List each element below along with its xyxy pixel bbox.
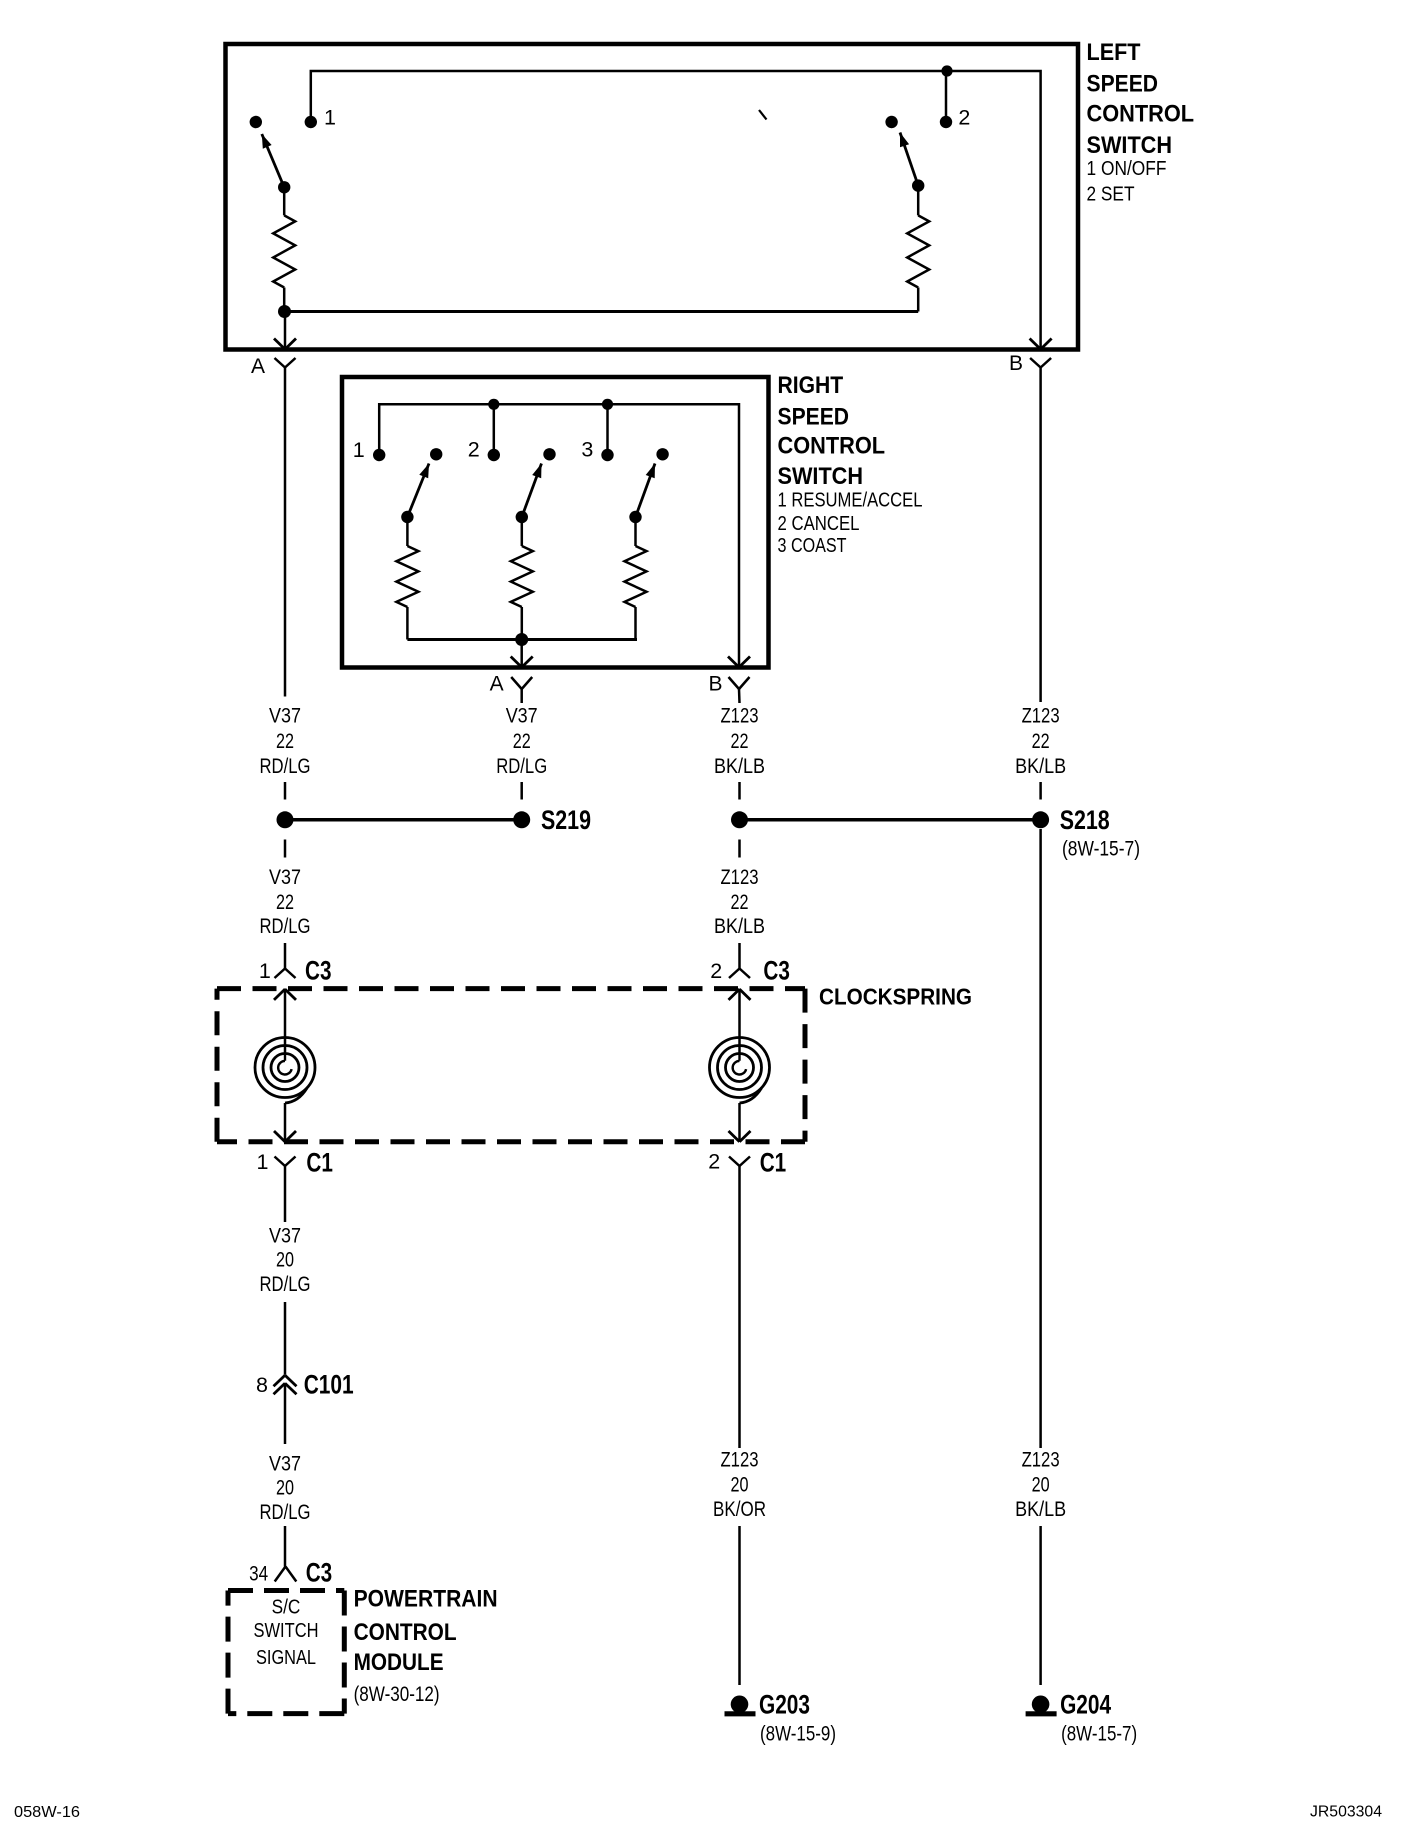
svg-text:C3: C3 (305, 956, 332, 986)
svg-text:(8W-15-7): (8W-15-7) (1062, 838, 1140, 861)
svg-text:20: 20 (731, 1474, 749, 1497)
svg-text:2: 2 (708, 1150, 720, 1174)
svg-text:20: 20 (276, 1249, 294, 1272)
svg-text:Z123: Z123 (721, 1449, 759, 1472)
svg-text:BK/LB: BK/LB (1015, 1498, 1066, 1521)
svg-text:22: 22 (731, 730, 749, 753)
svg-text:SWITCH: SWITCH (778, 463, 864, 490)
svg-text:22: 22 (276, 891, 294, 914)
svg-text:Z123: Z123 (1022, 705, 1060, 728)
svg-text:20: 20 (276, 1477, 294, 1500)
svg-text:C3: C3 (306, 1557, 333, 1587)
svg-text:CONTROL: CONTROL (354, 1619, 457, 1646)
svg-text:22: 22 (276, 730, 294, 753)
svg-text:RD/LG: RD/LG (260, 1501, 311, 1524)
svg-text:S219: S219 (541, 805, 591, 835)
svg-text:(8W-15-9): (8W-15-9) (760, 1723, 836, 1746)
svg-text:B: B (708, 673, 722, 696)
svg-text:V37: V37 (269, 866, 301, 889)
svg-text:(8W-30-12): (8W-30-12) (354, 1683, 440, 1706)
svg-text:C101: C101 (304, 1370, 354, 1400)
svg-text:22: 22 (731, 891, 749, 914)
svg-text:Z123: Z123 (721, 866, 759, 889)
svg-text:RD/LG: RD/LG (260, 1273, 311, 1296)
svg-text:3: 3 (581, 438, 593, 462)
svg-text:A: A (490, 673, 504, 696)
svg-text:BK/LB: BK/LB (1015, 755, 1066, 778)
svg-text:1: 1 (257, 1150, 269, 1174)
svg-text:2: 2 (468, 438, 480, 462)
svg-text:C1: C1 (760, 1148, 787, 1178)
svg-text:BK/LB: BK/LB (714, 755, 765, 778)
svg-text:S218: S218 (1060, 805, 1110, 835)
svg-text:BK/OR: BK/OR (713, 1498, 766, 1521)
svg-text:20: 20 (1032, 1474, 1050, 1497)
svg-text:1: 1 (259, 959, 271, 983)
svg-text:V37: V37 (269, 705, 301, 728)
svg-text:POWERTRAIN: POWERTRAIN (354, 1586, 498, 1613)
svg-text:1 ON/OFF: 1 ON/OFF (1087, 158, 1167, 180)
svg-text:SPEED: SPEED (778, 403, 850, 430)
svg-text:G204: G204 (1060, 1690, 1111, 1720)
svg-text:34: 34 (249, 1562, 268, 1586)
svg-text:MODULE: MODULE (354, 1649, 444, 1676)
svg-text:SPEED: SPEED (1087, 70, 1159, 97)
svg-text:2 CANCEL: 2 CANCEL (778, 513, 860, 535)
svg-text:C3: C3 (763, 956, 790, 986)
svg-text:(8W-15-7): (8W-15-7) (1061, 1723, 1137, 1746)
svg-text:B: B (1009, 352, 1023, 375)
svg-text:BK/LB: BK/LB (714, 915, 765, 938)
svg-text:S/C: S/C (272, 1596, 301, 1618)
svg-text:V37: V37 (506, 705, 538, 728)
svg-text:2: 2 (710, 959, 722, 983)
svg-text:SWITCH: SWITCH (1087, 132, 1173, 159)
svg-text:V37: V37 (269, 1453, 301, 1476)
svg-text:RD/LG: RD/LG (260, 915, 311, 938)
svg-text:G203: G203 (759, 1690, 810, 1720)
svg-text:22: 22 (513, 730, 531, 753)
svg-text:2 SET: 2 SET (1087, 184, 1135, 206)
svg-text:1: 1 (353, 438, 365, 462)
svg-text:SWITCH: SWITCH (254, 1620, 319, 1642)
svg-text:058W-16: 058W-16 (14, 1804, 80, 1821)
svg-text:V37: V37 (269, 1225, 301, 1248)
svg-text:22: 22 (1032, 730, 1050, 753)
svg-text:RD/LG: RD/LG (496, 755, 547, 778)
svg-text:Z123: Z123 (721, 705, 759, 728)
svg-text:JR503304: JR503304 (1310, 1804, 1382, 1821)
svg-text:CONTROL: CONTROL (1087, 101, 1195, 128)
svg-text:CONTROL: CONTROL (778, 433, 886, 460)
svg-text:RIGHT: RIGHT (778, 372, 844, 399)
svg-text:3 COAST: 3 COAST (778, 535, 847, 557)
svg-text:8: 8 (256, 1373, 268, 1397)
svg-text:A: A (251, 355, 265, 378)
svg-text:1 RESUME/ACCEL: 1 RESUME/ACCEL (778, 490, 923, 512)
svg-text:RD/LG: RD/LG (260, 755, 311, 778)
svg-text:SIGNAL: SIGNAL (256, 1647, 316, 1669)
svg-text:CLOCKSPRING: CLOCKSPRING (819, 984, 972, 1010)
svg-text:1: 1 (324, 106, 336, 130)
svg-text:Z123: Z123 (1022, 1449, 1060, 1472)
svg-text:C1: C1 (306, 1148, 333, 1178)
svg-text:LEFT: LEFT (1087, 39, 1141, 66)
svg-text:2: 2 (958, 106, 970, 130)
